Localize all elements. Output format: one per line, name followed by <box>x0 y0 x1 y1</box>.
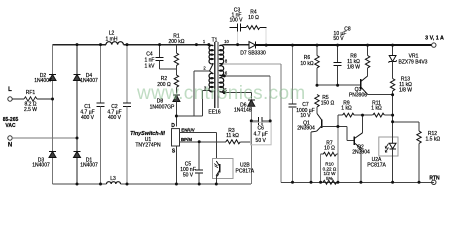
svg-text:100 V: 100 V <box>229 18 243 24</box>
svg-text:1 mH: 1 mH <box>106 37 118 43</box>
svg-text:50 V: 50 V <box>183 173 194 179</box>
svg-text:1N4007GP: 1N4007GP <box>150 105 175 111</box>
svg-text:C6: C6 <box>257 126 264 132</box>
svg-text:1N4007: 1N4007 <box>34 78 52 84</box>
svg-text:1/8 W: 1/8 W <box>347 64 360 70</box>
svg-text:L: L <box>8 87 12 93</box>
svg-text:1 kΩ: 1 kΩ <box>341 105 352 111</box>
svg-text:PC817A: PC817A <box>236 169 255 175</box>
svg-text:1N4007: 1N4007 <box>80 78 98 84</box>
svg-text:PC817A: PC817A <box>367 162 386 168</box>
svg-text:2: 2 <box>203 66 206 71</box>
svg-text:D7 SB3330: D7 SB3330 <box>240 51 266 57</box>
svg-text:150 Ω: 150 Ω <box>321 101 335 107</box>
svg-text:PN3906: PN3906 <box>349 93 367 99</box>
svg-text:1/8 W: 1/8 W <box>399 87 412 93</box>
svg-text:L3: L3 <box>110 176 116 182</box>
svg-text:2.5 W: 2.5 W <box>24 107 37 113</box>
svg-text:1: 1 <box>203 39 206 44</box>
svg-text:RTN: RTN <box>429 176 440 182</box>
svg-text:3 V, 1 A: 3 V, 1 A <box>425 36 444 42</box>
svg-text:200 kΩ: 200 kΩ <box>169 39 185 45</box>
svg-text:T1: T1 <box>212 38 218 44</box>
svg-text:2N3904: 2N3904 <box>352 150 370 156</box>
svg-text:10: 10 <box>224 39 229 44</box>
svg-text:1.5 kΩ: 1.5 kΩ <box>426 136 441 142</box>
svg-text:RF1: RF1 <box>26 90 36 96</box>
svg-text:S: S <box>172 149 176 155</box>
svg-text:5%: 5% <box>326 176 333 181</box>
svg-text:EN/UV: EN/UV <box>181 128 194 133</box>
svg-text:10 V: 10 V <box>300 113 311 119</box>
svg-text:8: 8 <box>225 59 228 64</box>
svg-text:6: 6 <box>225 71 228 76</box>
svg-text:N: N <box>8 143 12 149</box>
svg-text:10 Ω: 10 Ω <box>248 15 259 21</box>
svg-text:10 Ω: 10 Ω <box>324 145 335 151</box>
svg-text:400 V: 400 V <box>108 115 122 121</box>
svg-text:BZX79 B4V3: BZX79 B4V3 <box>399 60 428 66</box>
svg-text:10 kΩ: 10 kΩ <box>300 61 313 67</box>
svg-text:11 kΩ: 11 kΩ <box>226 133 239 139</box>
svg-text:U2B: U2B <box>240 162 250 168</box>
svg-text:4.7 µF: 4.7 µF <box>254 132 268 138</box>
svg-text:1 kΩ: 1 kΩ <box>371 105 382 111</box>
svg-text:VAC: VAC <box>5 123 16 129</box>
svg-text:1 kV: 1 kV <box>144 64 155 70</box>
svg-text:400 V: 400 V <box>81 115 95 121</box>
svg-text:1N4148: 1N4148 <box>234 108 252 114</box>
svg-text:1N4007: 1N4007 <box>32 162 50 168</box>
svg-text:1N4007: 1N4007 <box>80 162 98 168</box>
svg-text:50 V: 50 V <box>333 36 344 42</box>
svg-text:50 V: 50 V <box>256 138 267 144</box>
svg-text:TNY274PN: TNY274PN <box>135 143 161 149</box>
svg-text:2N3904: 2N3904 <box>297 125 315 131</box>
svg-text:BP/M: BP/M <box>181 137 192 142</box>
svg-text:EE16: EE16 <box>208 110 220 116</box>
svg-text:D: D <box>171 123 175 129</box>
